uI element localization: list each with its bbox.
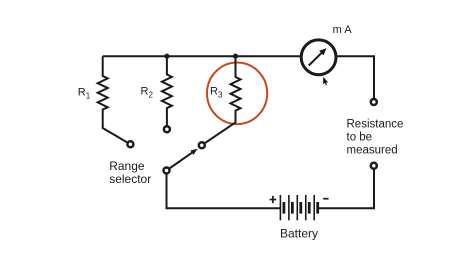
svg-text:m A: m A [333, 24, 353, 36]
terminal lower measured [371, 163, 377, 169]
battery plus sign [270, 196, 277, 203]
milliammeter M1 body [301, 40, 336, 75]
switch S1 arm (range selector arrow) [167, 149, 198, 171]
svg-text:selector: selector [109, 172, 151, 186]
svg-text:R3: R3 [210, 86, 223, 100]
battery BT1 plates [280, 195, 317, 220]
node junction R2/top-rail [164, 54, 169, 59]
svg-text:to be: to be [347, 132, 373, 144]
svg-text:R2: R2 [141, 86, 154, 100]
resistor R3 [202, 56, 241, 145]
wire bottom rail battery to right side up to lower terminal [318, 169, 374, 209]
resistor R2 [162, 56, 172, 129]
wire pole down and bottom rail to battery [167, 174, 281, 209]
switch S1 pole terminal [164, 168, 170, 174]
terminal R1 contact [127, 141, 133, 147]
svg-text:Resistance: Resistance [347, 119, 404, 131]
wire top rail left (R1 top to meter) [103, 55, 301, 57]
svg-text:measured: measured [347, 144, 398, 156]
svg-text:Battery: Battery [280, 227, 318, 241]
node junction R3/top-rail [233, 54, 238, 59]
terminal R2 contact [164, 126, 170, 132]
highlight circle around R3 [207, 63, 267, 125]
terminal upper measured [371, 99, 377, 105]
svg-text:R1: R1 [78, 86, 91, 100]
wire meter right to top-right corner down to upper terminal [336, 56, 374, 99]
terminal R3 contact [199, 142, 205, 148]
resistor R1 [98, 56, 131, 144]
mouse cursor [323, 77, 328, 86]
milliammeter M1 needle [309, 48, 327, 65]
battery minus sign [323, 198, 328, 200]
